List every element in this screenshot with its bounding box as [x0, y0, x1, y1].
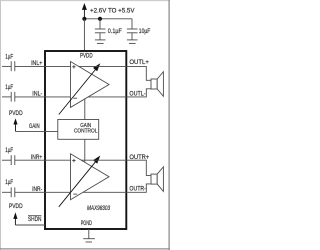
svg-text:1µF: 1µF	[5, 180, 13, 186]
svg-text:OUTR-: OUTR-	[129, 187, 146, 193]
capacitor C1 0.1uF	[95, 19, 106, 40]
speaker LS2	[151, 167, 163, 192]
pin +	[72, 65, 75, 68]
op-amp A1 left channel	[71, 62, 110, 108]
power symbol PVDD	[9, 111, 23, 131]
supply arrow VDD	[82, 3, 87, 19]
ground	[95, 40, 106, 44]
svg-text:INL+: INL+	[31, 61, 43, 67]
wire OUTL+	[79, 66, 151, 80]
svg-text:1µF: 1µF	[5, 55, 13, 61]
svg-text:OUTL+: OUTL+	[129, 60, 149, 66]
wire INR+	[15, 159, 71, 161]
svg-text:10µF: 10µF	[139, 29, 151, 35]
pin +	[72, 159, 75, 162]
capacitor C3 1uF	[2, 61, 15, 71]
speaker LS1	[151, 72, 163, 97]
svg-text:INR-: INR-	[32, 187, 42, 193]
block GAIN CONTROL	[58, 120, 99, 140]
wire SHDN	[15, 224, 45, 226]
svg-text:GAIN: GAIN	[29, 124, 40, 130]
capacitor C4 1uF	[2, 92, 15, 102]
wire A1 to gain control	[84, 99, 86, 120]
wire INR-	[15, 191, 71, 193]
wire supply rail	[84, 18, 132, 20]
svg-text:OUTL-: OUTL-	[129, 91, 145, 97]
svg-text:+2.6V TO +5.5V: +2.6V TO +5.5V	[90, 8, 135, 14]
junction	[98, 17, 102, 21]
wire gain control to A2	[84, 139, 86, 162]
wire INL+	[15, 65, 71, 67]
svg-text:1µF: 1µF	[5, 148, 13, 154]
wire OUTL-	[88, 89, 151, 97]
gain arrow	[59, 63, 101, 114]
wire OUTR+	[81, 160, 151, 175]
capacitor C5 1uF	[2, 155, 15, 165]
wire GAIN	[16, 130, 58, 132]
op-amp A2 right channel	[71, 154, 110, 200]
svg-text:PVDD: PVDD	[9, 204, 23, 210]
svg-text:PGND: PGND	[81, 221, 93, 227]
capacitor C6 1uF	[2, 187, 15, 197]
svg-text:1µF: 1µF	[5, 85, 13, 91]
capacitor C2 10uF	[127, 19, 138, 40]
pin -	[73, 193, 77, 195]
wire INL-	[15, 96, 71, 98]
svg-text:SHDN: SHDN	[28, 217, 41, 223]
svg-text:INR+: INR+	[31, 155, 43, 161]
power symbol PVDD	[9, 204, 23, 225]
svg-text:CONTROL: CONTROL	[74, 128, 98, 134]
svg-text:MAX98303: MAX98303	[87, 206, 111, 212]
junction	[82, 17, 86, 21]
svg-text:0.1µF: 0.1µF	[108, 29, 122, 35]
pin -	[73, 97, 77, 99]
IC U1 MAX98303 body	[45, 51, 126, 229]
svg-text:PVDD: PVDD	[80, 54, 93, 60]
gain arrow	[59, 156, 101, 207]
wire OUTR-	[83, 184, 151, 192]
svg-text:INL-: INL-	[32, 92, 42, 98]
wire PVDD down to IC	[83, 19, 85, 52]
ground	[127, 40, 138, 44]
wire PGND	[88, 229, 90, 239]
svg-text:PVDD: PVDD	[9, 111, 23, 117]
ground	[83, 239, 95, 242]
pin label SHDN (active low)	[28, 216, 41, 223]
svg-text:OUTR+: OUTR+	[129, 155, 149, 161]
